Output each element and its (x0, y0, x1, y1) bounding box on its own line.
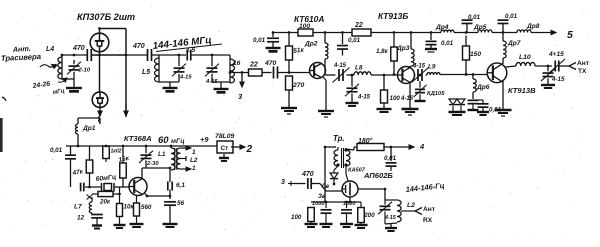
svg-text:L4: L4 (46, 46, 54, 53)
svg-text:1,8к: 1,8к (376, 48, 389, 55)
svg-text:КТ913В: КТ913В (508, 86, 536, 95)
svg-text:2-10: 2-10 (78, 68, 91, 74)
svg-text:Др1: Др1 (82, 125, 96, 132)
svg-text:1: 1 (192, 165, 196, 172)
svg-text:2-30: 2-30 (146, 161, 159, 167)
svg-text:Др3: Др3 (396, 45, 410, 52)
svg-text:L9: L9 (428, 64, 436, 71)
svg-text:Др8: Др8 (526, 23, 540, 30)
svg-text:Гв: Гв (322, 184, 329, 190)
svg-text:Др5: Др5 (473, 24, 487, 31)
svg-text:4-15: 4-15 (412, 64, 426, 70)
svg-text:Др6: Др6 (476, 84, 490, 91)
svg-text:60: 60 (158, 135, 169, 146)
svg-text:4-15: 4-15 (357, 95, 371, 101)
svg-text:RX: RX (423, 217, 433, 224)
svg-text:1: 1 (192, 149, 196, 156)
svg-text:L1: L1 (158, 151, 166, 158)
svg-text:Др4: Др4 (435, 24, 449, 31)
svg-text:56: 56 (177, 200, 185, 207)
svg-text:1000: 1000 (312, 201, 325, 207)
svg-text:16: 16 (233, 60, 241, 67)
svg-text:22: 22 (354, 22, 363, 29)
svg-text:470: 470 (72, 45, 85, 52)
svg-text:мГц: мГц (171, 138, 185, 145)
svg-text:4-15: 4-15 (400, 96, 414, 102)
svg-text:L2: L2 (407, 202, 415, 209)
svg-text:100: 100 (291, 214, 302, 221)
svg-text:470: 470 (301, 171, 314, 178)
svg-text:ТХ: ТХ (578, 68, 587, 75)
svg-text:6,1: 6,1 (176, 182, 185, 189)
svg-text:5: 5 (567, 29, 573, 41)
svg-text:10к: 10к (124, 204, 135, 211)
svg-text:АП602Б: АП602Б (363, 171, 393, 180)
svg-text:L2: L2 (190, 157, 198, 164)
svg-text:20к: 20к (99, 199, 111, 206)
svg-text:78L09: 78L09 (215, 133, 234, 140)
svg-text:270: 270 (292, 82, 305, 89)
svg-text:КТ913Б: КТ913Б (378, 11, 408, 21)
svg-text:22: 22 (249, 62, 258, 69)
svg-text:1к02: 1к02 (111, 149, 122, 155)
svg-text:150: 150 (470, 51, 481, 58)
svg-text:0,01: 0,01 (505, 13, 518, 20)
svg-text:L5: L5 (142, 69, 150, 76)
svg-text:100: 100 (390, 95, 401, 102)
svg-text:0,01: 0,01 (348, 37, 361, 44)
svg-text:КД105: КД105 (427, 91, 445, 97)
svg-text:560: 560 (141, 204, 152, 211)
svg-text:Др2: Др2 (304, 41, 318, 48)
svg-text:Ст: Ст (221, 145, 229, 152)
svg-text:0,01: 0,01 (384, 155, 397, 162)
svg-text:200: 200 (363, 212, 375, 219)
svg-text:470: 470 (132, 43, 145, 50)
svg-text:Ант: Ант (423, 206, 436, 213)
svg-text:КП307Б 2шт: КП307Б 2шт (77, 12, 135, 22)
svg-text:4-15: 4-15 (384, 215, 397, 221)
svg-text:Зв: Зв (318, 193, 326, 200)
svg-text:0,01: 0,01 (468, 14, 481, 21)
svg-text:2: 2 (246, 144, 253, 155)
svg-text:Др7: Др7 (507, 40, 521, 47)
svg-text:4: 4 (419, 142, 425, 151)
svg-text:Тр.: Тр. (333, 134, 345, 143)
svg-text:+9: +9 (200, 135, 209, 144)
svg-text:L10: L10 (519, 54, 531, 61)
svg-text:4-15: 4-15 (333, 63, 347, 69)
svg-text:4-15: 4-15 (179, 75, 192, 81)
svg-text:4+15: 4+15 (548, 51, 564, 58)
svg-text:470: 470 (264, 60, 277, 67)
svg-text:0,01: 0,01 (441, 40, 454, 47)
svg-text:4-15: 4-15 (551, 76, 565, 83)
svg-text:0,01: 0,01 (50, 147, 63, 154)
svg-text:12: 12 (77, 215, 85, 222)
svg-text:100: 100 (299, 23, 310, 30)
svg-text:Ант: Ант (577, 60, 590, 67)
svg-text:L8: L8 (355, 65, 363, 72)
svg-text:0,01: 0,01 (253, 37, 266, 44)
svg-text:3: 3 (281, 179, 285, 186)
svg-text:L7: L7 (74, 204, 82, 211)
